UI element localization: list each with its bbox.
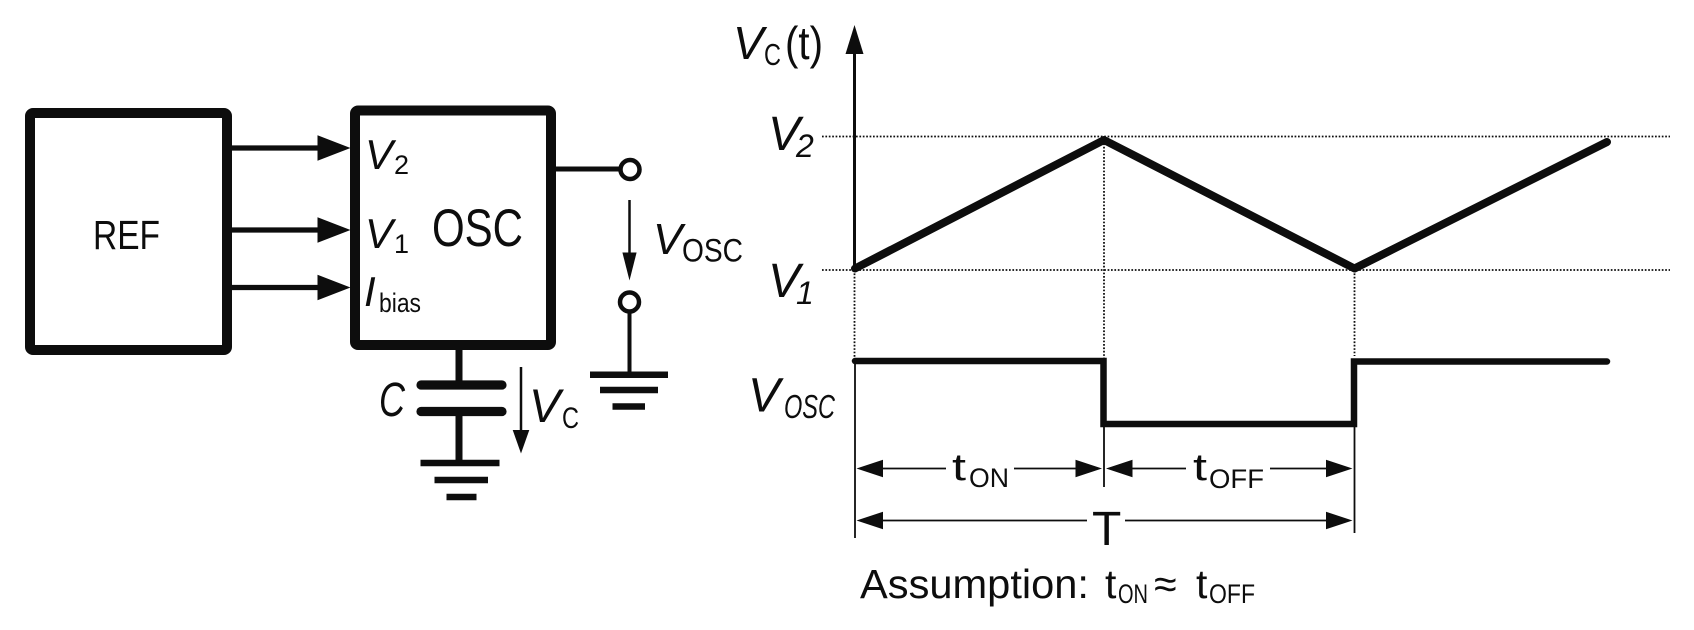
svg-text:OSC: OSC bbox=[682, 233, 743, 269]
label Vosc waveform bbox=[748, 370, 836, 426]
arrow Vosc direction bbox=[622, 200, 636, 281]
label tOFF bbox=[1193, 447, 1264, 494]
svg-text:V: V bbox=[733, 17, 768, 69]
svg-text:REF: REF bbox=[93, 212, 160, 258]
node V1 level dotted line bbox=[822, 269, 1670, 271]
capacitor C plates bbox=[421, 385, 502, 412]
label assumption note bbox=[860, 561, 1255, 609]
arrowhead Ibias input bbox=[318, 275, 351, 300]
wire V1 input bbox=[232, 227, 322, 232]
label tON bbox=[952, 447, 1009, 493]
pin label V1 bbox=[365, 210, 409, 259]
svg-text:OFF: OFF bbox=[1209, 464, 1264, 494]
svg-text:t: t bbox=[1193, 447, 1208, 489]
label Vosc output bbox=[653, 215, 743, 269]
dotted vertical at trough bbox=[1354, 270, 1356, 356]
svg-text:t: t bbox=[952, 447, 967, 489]
svg-text:T: T bbox=[1092, 503, 1121, 556]
waveform Vosc square wave bbox=[855, 361, 1607, 424]
wire V2 input bbox=[232, 145, 322, 150]
arrowhead V1 input bbox=[318, 217, 351, 242]
dimension T arrows bbox=[857, 512, 1353, 530]
svg-text:ON: ON bbox=[969, 463, 1009, 493]
wire Ibias input bbox=[232, 285, 322, 290]
graph axis Vc(t) bbox=[846, 25, 864, 271]
label Vc(t) axis title bbox=[733, 17, 823, 72]
svg-text:1: 1 bbox=[394, 229, 409, 259]
svg-text:V: V bbox=[365, 131, 397, 178]
svg-text:C: C bbox=[764, 37, 781, 72]
svg-text:ON: ON bbox=[1118, 579, 1148, 609]
svg-text:C: C bbox=[379, 374, 405, 427]
label Vc bbox=[529, 379, 579, 435]
svg-text:V: V bbox=[365, 210, 397, 257]
svg-text:bias: bias bbox=[379, 288, 421, 318]
svg-text:2: 2 bbox=[394, 150, 409, 180]
wire to ground bbox=[628, 313, 632, 374]
block REF box bbox=[30, 113, 227, 350]
svg-text:I: I bbox=[364, 268, 376, 315]
svg-text:2: 2 bbox=[795, 128, 814, 164]
svg-text:1: 1 bbox=[796, 275, 814, 311]
wire OSC output bbox=[556, 167, 620, 172]
svg-text:Assumption:: Assumption: bbox=[860, 561, 1089, 607]
wire capacitor to ground bbox=[456, 416, 463, 464]
extension line below falling edge bbox=[1103, 427, 1105, 487]
ground output terminal bbox=[590, 375, 668, 407]
svg-text:t: t bbox=[1196, 561, 1208, 607]
arrow Vc direction bbox=[513, 367, 530, 454]
pin label Ibias bbox=[364, 268, 421, 318]
terminal circle upper bbox=[621, 160, 640, 179]
dimension tOFF arrows bbox=[1106, 460, 1353, 478]
svg-text:OSC: OSC bbox=[432, 199, 523, 258]
ground capacitor bbox=[421, 463, 500, 497]
axis dotted segment below V1 bbox=[854, 270, 856, 358]
svg-text:(t): (t) bbox=[785, 17, 823, 69]
svg-text:OSC: OSC bbox=[784, 388, 836, 425]
wire OSC to capacitor bbox=[456, 350, 463, 383]
axis extension line below square wave bbox=[854, 361, 856, 538]
block OSC box bbox=[355, 111, 551, 346]
arrowhead V2 input bbox=[318, 135, 351, 160]
svg-text:C: C bbox=[562, 402, 579, 435]
svg-text:V: V bbox=[748, 370, 784, 423]
dotted vertical at peak bbox=[1103, 140, 1105, 358]
svg-text:≈: ≈ bbox=[1154, 561, 1177, 607]
waveform Vc triangle bbox=[855, 140, 1607, 269]
label V1 level bbox=[768, 255, 814, 311]
dimension tON arrows bbox=[857, 460, 1103, 478]
label V2 level bbox=[768, 108, 814, 164]
pin label V2 bbox=[365, 131, 409, 180]
svg-text:V: V bbox=[529, 379, 564, 432]
extension line below rising edge bbox=[1354, 427, 1356, 533]
svg-text:t: t bbox=[1105, 561, 1117, 607]
svg-text:OFF: OFF bbox=[1209, 579, 1255, 609]
terminal circle lower bbox=[620, 293, 639, 312]
node V2 level dotted line bbox=[822, 136, 1670, 138]
